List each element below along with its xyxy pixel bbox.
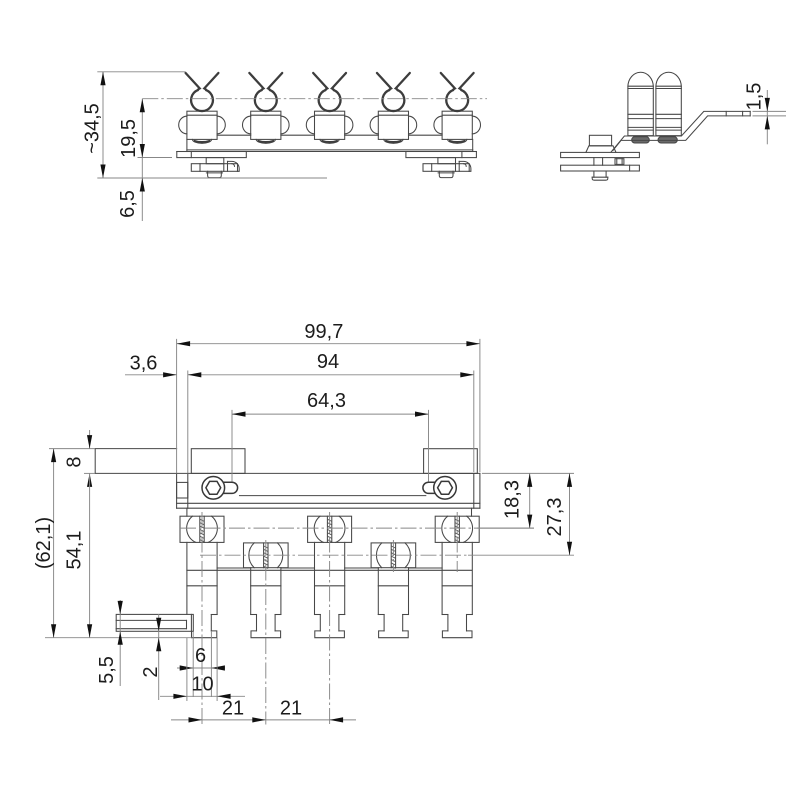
right mounting bracket with screw (front view) [423,158,471,178]
spring clip 1 [186,73,200,90]
bent metal bracket strip (side view) [611,111,750,152]
base: spacer blocks (side view) [594,158,624,166]
plug-in foot 2 [251,568,281,638]
dimension 6,5 [117,178,145,218]
upper row terminal screw 1 [180,516,224,542]
lower row terminal screw 4 [371,543,416,569]
protruding flat tab at upper left [95,449,176,474]
svg-text:2: 2 [140,666,162,677]
dimension (62,1) overall height [33,449,56,638]
svg-text:(62,1): (62,1) [33,517,55,569]
right hex screw with slot [423,477,456,500]
dimension ~34,5 (overall height) [82,72,328,178]
main front view: fuse block body [33,321,574,724]
plug-in foot 4 [378,568,408,638]
base: upper plate (side view) [561,152,640,157]
dimension 10 (foot width) [160,638,245,701]
dimensions 21 / 21 (pitch) [171,698,356,723]
base: screw head block (side view) [589,135,611,146]
lower row terminal screw 2 [244,543,289,569]
base: trapezoid mount (side view) [586,146,616,153]
dimension 94 [188,351,474,473]
svg-text:8: 8 [64,456,86,467]
front view: terminal strip with 5 spring clips [82,72,488,221]
body ledge lines [187,508,472,570]
dimension 8 (tab height) [49,430,95,487]
svg-text:64,3: 64,3 [307,390,346,412]
horizontal centerline lower screw row [200,554,574,556]
fuse clamp unit 2 (front view) [243,73,290,143]
left mounting bracket with screw (front view) [191,158,239,178]
svg-text:6: 6 [195,645,206,667]
dimension 99,7 (overall width) [177,321,480,473]
horizontal centerline upper screw row [180,527,534,529]
spring clip 3 [313,73,327,90]
left end plate under bar [177,152,247,158]
svg-text:3,6: 3,6 [130,353,158,375]
fuse clamp unit 3 (front view) [306,73,353,143]
right end plate under bar [406,152,477,158]
fuse clamp unit 5 (front view) [434,73,481,143]
fuse clamp unit 1 (front view) [179,73,226,143]
plug-in foot 5 [442,542,472,637]
rail body [177,473,480,508]
horizontal centerline through clip loops [142,98,487,100]
svg-text:94: 94 [317,351,339,373]
left top ear block [191,449,245,474]
spring clip 5 [441,73,455,90]
upper row terminal screw 3 [308,516,352,542]
upper row terminal screw 5 [435,516,479,542]
dimension 54,1 [45,473,192,637]
svg-text:1,5: 1,5 [744,83,766,111]
vertical centerlines through screw positions [202,512,457,725]
rail top edge [95,472,480,474]
base: screw below (side view) [592,171,608,180]
base: lower plate (side view) [561,165,640,171]
dimension 27,3 [544,473,572,555]
dimension 6 (foot waist) [177,631,225,697]
side view: clip pair on bent bracket [561,72,786,180]
clip feet (dark caps) [632,137,678,143]
bus bar body (front view) [177,135,477,151]
dimension 3,6 [125,353,177,378]
svg-text:~34,5: ~34,5 [82,103,104,154]
right top ear block [424,449,478,474]
dimension 1,5 (tab thickness) [744,83,787,145]
svg-text:10: 10 [191,674,213,696]
svg-text:27,3: 27,3 [544,498,566,537]
plug-in foot 1 [116,542,217,637]
svg-text:21: 21 [280,698,302,720]
fuse clamp unit 4 (front view) [370,73,417,143]
svg-text:54,1: 54,1 [64,531,86,570]
dimension 5,5 [96,600,123,686]
svg-text:19,5: 19,5 [118,119,140,158]
plug-in foot 3 [315,542,345,637]
right clip cylinder (side view) [656,72,681,135]
svg-text:99,7: 99,7 [304,321,343,343]
hidden edge line across rail [240,495,426,497]
dimension 19,5 [118,99,172,221]
left hex screw with slot [202,477,238,500]
spring clip 2 [249,73,263,90]
svg-text:5,5: 5,5 [96,656,118,684]
svg-text:18,3: 18,3 [502,480,524,519]
dimension 18,3 [477,473,574,528]
svg-text:21: 21 [222,698,244,720]
left clip cylinder (side view) [628,72,653,135]
dimension 2 [140,614,162,700]
small lip on left rail edge [177,482,188,498]
spring clip 4 [377,73,391,90]
dimension 64,3 [232,390,429,481]
svg-text:6,5: 6,5 [117,190,139,218]
